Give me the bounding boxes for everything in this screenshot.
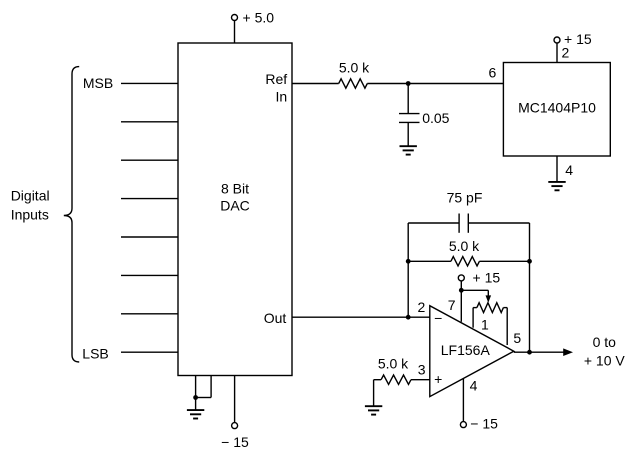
svg-text:2: 2 bbox=[418, 299, 426, 315]
svg-text:5.0 k: 5.0 k bbox=[339, 60, 370, 76]
svg-text:Digital: Digital bbox=[11, 188, 50, 204]
svg-text:LF156A: LF156A bbox=[441, 342, 491, 358]
svg-text:1: 1 bbox=[481, 317, 489, 333]
svg-text:LSB: LSB bbox=[82, 345, 108, 361]
svg-text:Ref: Ref bbox=[265, 71, 287, 87]
svg-text:5.0 k: 5.0 k bbox=[449, 238, 480, 254]
svg-text:MSB: MSB bbox=[83, 75, 113, 91]
svg-text:7: 7 bbox=[448, 297, 456, 313]
svg-text:Inputs: Inputs bbox=[11, 207, 49, 223]
svg-text:5.0 k: 5.0 k bbox=[378, 355, 409, 371]
svg-text:− 15: − 15 bbox=[470, 416, 498, 432]
svg-text:Out: Out bbox=[264, 310, 287, 326]
svg-text:−: − bbox=[434, 310, 442, 326]
svg-text:4: 4 bbox=[565, 162, 573, 178]
svg-text:75 pF: 75 pF bbox=[447, 190, 483, 206]
svg-text:+: + bbox=[434, 371, 442, 387]
svg-text:5: 5 bbox=[513, 330, 521, 346]
svg-text:+ 15: + 15 bbox=[473, 269, 501, 285]
svg-text:+ 10 V: + 10 V bbox=[584, 353, 626, 369]
svg-text:DAC: DAC bbox=[220, 197, 250, 213]
svg-text:0.05: 0.05 bbox=[422, 110, 449, 126]
svg-text:2: 2 bbox=[562, 44, 570, 60]
svg-text:MC1404P10: MC1404P10 bbox=[518, 100, 596, 116]
svg-text:4: 4 bbox=[470, 378, 478, 394]
svg-text:− 15: − 15 bbox=[221, 434, 249, 450]
svg-text:8 Bit: 8 Bit bbox=[221, 181, 249, 197]
svg-text:In: In bbox=[276, 89, 288, 105]
svg-text:6: 6 bbox=[489, 65, 497, 81]
svg-text:3: 3 bbox=[418, 361, 426, 377]
svg-text:0 to: 0 to bbox=[593, 334, 617, 350]
svg-text:+ 5.0: + 5.0 bbox=[243, 10, 275, 26]
